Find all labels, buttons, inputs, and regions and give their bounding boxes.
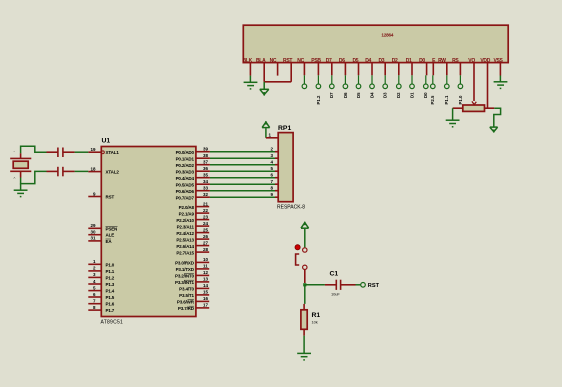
svg-text:U1: U1	[102, 138, 111, 145]
svg-text:12864: 12864	[381, 33, 393, 38]
svg-text:RS: RS	[452, 58, 459, 64]
terminal circles under LCD pins	[302, 75, 463, 88]
wire: LCD pin VDD stub	[487, 63, 489, 109]
svg-text:P3.1/TXD: P3.1/TXD	[176, 267, 195, 272]
terminal D7	[331, 75, 333, 83]
svg-text:P0.0/AD0: P0.0/AD0	[176, 150, 195, 155]
pin stub ALE (pin 30)	[88, 234, 101, 236]
pin stub P1.2 (pin 3)	[88, 276, 101, 278]
svg-text:D3: D3	[379, 58, 385, 64]
overlines PSEN / EA	[106, 226, 118, 239]
svg-text:P1.2: P1.2	[106, 275, 115, 280]
svg-text:18: 18	[90, 166, 96, 171]
rotated terminal labels	[316, 92, 463, 105]
wire P0.0 to RP1 pin 2	[196, 151, 278, 153]
wire: LCD pin PSB stub	[317, 63, 319, 76]
svg-text:P3.4/T0: P3.4/T0	[179, 287, 194, 292]
wire: LCD pin RW stub	[446, 63, 448, 76]
svg-text:21: 21	[203, 201, 209, 206]
capacitor C2 (top)	[47, 148, 75, 158]
wire: LCD pin D7 stub	[331, 63, 333, 76]
svg-text:P1.2: P1.2	[316, 95, 321, 104]
wire R1 to ground	[303, 336, 305, 354]
MCU U1 AT89C51	[101, 138, 196, 326]
terminal NC	[303, 75, 305, 83]
svg-text:VDD: VDD	[480, 58, 490, 64]
wire: LCD pin RST stub	[290, 63, 292, 82]
terminal D3	[384, 75, 386, 83]
pin stub P3.2 (pin 12)	[196, 274, 209, 276]
svg-text:P0.6/AD6: P0.6/AD6	[176, 189, 195, 194]
terminal RW	[446, 75, 448, 83]
MCU left pin names	[106, 150, 120, 313]
wire: LCD pin D6 stub	[344, 63, 346, 76]
svg-text:D2: D2	[396, 92, 401, 98]
wire: LCD pin NC stub	[277, 63, 279, 76]
pin stub P2.5 (pin 26)	[196, 238, 209, 240]
pin stub P1.6 (pin 7)	[88, 303, 101, 305]
svg-text:PSB: PSB	[311, 58, 321, 64]
pin stub P1.1 (pin 2)	[88, 270, 101, 272]
svg-text:D6: D6	[339, 58, 345, 64]
svg-text:P3.0/RXD: P3.0/RXD	[175, 261, 195, 266]
wire P0.2 to RP1 pin 4	[196, 164, 278, 166]
svg-text:RST: RST	[368, 283, 380, 289]
pin stub P2.6 (pin 27)	[196, 245, 209, 247]
svg-text:23: 23	[203, 214, 209, 219]
svg-text:NC: NC	[297, 58, 304, 64]
svg-text:P2.0/A8: P2.0/A8	[179, 205, 195, 210]
wire: LCD pin BLA stub	[263, 63, 265, 82]
svg-text:EA: EA	[106, 239, 113, 244]
wire: LCD pin D3 stub	[384, 63, 386, 76]
svg-text:AT89C51: AT89C51	[101, 320, 124, 326]
pin stub P2.0 (pin 21)	[196, 206, 209, 208]
svg-text:P3.5/T1: P3.5/T1	[179, 293, 194, 298]
svg-text:30: 30	[90, 230, 96, 235]
RP1 pin number 4	[271, 160, 274, 165]
svg-text:RW: RW	[438, 58, 446, 64]
wire: LCD pin D0 stub	[426, 63, 428, 76]
svg-text:19: 19	[90, 147, 96, 152]
wire: LCD pin VO stub	[473, 63, 475, 101]
svg-text:15: 15	[203, 290, 209, 295]
terminal E	[432, 75, 434, 83]
svg-text:25: 25	[203, 227, 209, 232]
svg-text:P2.5/A13: P2.5/A13	[176, 237, 194, 242]
svg-text:D4: D4	[369, 92, 374, 98]
wire: LCD pin D1 stub	[411, 63, 413, 76]
capacitor C1	[325, 271, 356, 297]
pin stub XTAL2 (pin 18)	[88, 171, 101, 173]
pin stub P2.7 (pin 28)	[196, 251, 209, 253]
wire P0.5 to RP1 pin 7	[196, 183, 278, 185]
resistor R1	[301, 304, 321, 336]
svg-text:39: 39	[203, 147, 209, 152]
RP1 pin number 7	[271, 179, 274, 184]
svg-text:NC: NC	[270, 58, 277, 64]
terminal D0	[425, 75, 427, 83]
pin stub XTAL1 (pin 19)	[88, 151, 101, 153]
power (down arrow) under BLA	[260, 82, 269, 96]
svg-text:P0.2/AD2: P0.2/AD2	[176, 163, 195, 168]
MCU right pin stubs P0 done above; P2/P3 stubs	[196, 207, 209, 308]
svg-text:R1: R1	[312, 312, 321, 319]
svg-text:35: 35	[203, 173, 209, 178]
resistor pack RP1	[277, 125, 305, 211]
MCU left pin numbers	[90, 147, 96, 310]
svg-text:P0.1/AD1: P0.1/AD1	[176, 156, 195, 161]
pin stub P1.7 (pin 8)	[88, 309, 101, 311]
svg-text:VSS: VSS	[493, 58, 503, 64]
pin stub P2.3 (pin 24)	[196, 225, 209, 227]
pin XTAL1 clock circle	[102, 151, 105, 154]
pin stub P2.1 (pin 22)	[196, 212, 209, 214]
wire C3 to XTAL2	[75, 170, 89, 172]
svg-text:D0: D0	[423, 92, 428, 98]
pin stub PSEN (pin 29)	[88, 227, 101, 229]
pin stub P3.1 (pin 11)	[196, 268, 209, 270]
svg-text:36: 36	[203, 166, 209, 171]
svg-text:P3.3/INT1: P3.3/INT1	[175, 280, 195, 285]
svg-text:10: 10	[203, 257, 209, 262]
RP1 pin number 8	[271, 186, 274, 191]
wire: LCD pin NC2 stub	[303, 63, 305, 76]
pin stub P1.0 (pin 1)	[88, 263, 101, 265]
terminal D6	[344, 75, 346, 83]
overlines INT0 INT1 WR RD	[184, 274, 194, 307]
RP1 pin number 5	[271, 166, 274, 171]
pin stub P1.3 (pin 4)	[88, 283, 101, 285]
svg-text:P2.7/A15: P2.7/A15	[176, 250, 194, 255]
svg-text:P1.4: P1.4	[106, 289, 115, 294]
svg-text:10k: 10k	[312, 320, 318, 325]
wire: LCD pin BLK stub	[249, 63, 251, 76]
svg-text:10uF: 10uF	[331, 292, 340, 297]
wire junction down to R1	[304, 285, 306, 304]
svg-text:P0.7/AD7: P0.7/AD7	[176, 195, 195, 200]
svg-text:P2.4/A12: P2.4/A12	[176, 231, 194, 236]
terminal RS	[459, 75, 461, 83]
svg-text:D3: D3	[383, 92, 388, 98]
MCU right pin numbers	[203, 147, 209, 308]
RP1 pin number 6	[271, 173, 274, 178]
svg-text:37: 37	[203, 160, 209, 165]
svg-text:P1.7: P1.7	[106, 308, 115, 313]
svg-text:^: ^	[14, 176, 16, 181]
svg-text:C1: C1	[330, 271, 339, 278]
wire: LCD pin D4 stub	[371, 63, 373, 76]
svg-text:PSEN: PSEN	[106, 226, 118, 231]
wire crystal bottom / XTAL2	[21, 171, 47, 183]
svg-text:D7: D7	[329, 92, 334, 98]
LCD pin stubs	[250, 63, 500, 109]
svg-text:34: 34	[203, 179, 209, 184]
wire: LCD pin VSS stub	[499, 63, 501, 76]
svg-text:RP1: RP1	[278, 125, 291, 132]
terminal RST	[356, 283, 380, 290]
svg-text:P1.3: P1.3	[106, 282, 115, 287]
svg-text:D1: D1	[406, 58, 412, 64]
ground below crystal	[14, 184, 28, 197]
wire: LCD pin RS stub	[459, 63, 461, 76]
svg-text:P3.6/WR: P3.6/WR	[177, 300, 195, 305]
power (up arrow) above RP1	[262, 121, 270, 138]
svg-text:31: 31	[90, 236, 96, 241]
RP1 pin 1	[266, 137, 278, 139]
svg-text:XTAL2: XTAL2	[106, 170, 120, 175]
wire C2 to XTAL1	[75, 151, 89, 153]
pin stub P3.5 (pin 15)	[196, 294, 209, 296]
RP1 pin number 9	[271, 192, 274, 197]
svg-text:ALE: ALE	[106, 233, 115, 238]
svg-text:27: 27	[203, 240, 209, 245]
svg-text:38: 38	[203, 153, 209, 158]
svg-text:P1.6: P1.6	[106, 302, 115, 307]
button (push)	[295, 245, 307, 283]
wire pot right to power	[490, 108, 501, 132]
svg-text:P0.5/AD5: P0.5/AD5	[176, 182, 195, 187]
pin stub P3.6 (pin 16)	[196, 300, 209, 302]
pin stub P3.3 (pin 13)	[196, 281, 209, 283]
svg-text:RESPACK-8: RESPACK-8	[277, 205, 305, 211]
svg-text:13: 13	[203, 277, 209, 282]
svg-text:11: 11	[203, 264, 208, 269]
pin stub P1.5 (pin 6)	[88, 296, 101, 298]
svg-text:28: 28	[203, 247, 209, 252]
svg-text:33: 33	[203, 186, 209, 191]
pin stub P3.7 (pin 17)	[196, 307, 209, 309]
svg-text:P1.0: P1.0	[106, 262, 115, 267]
svg-text:P2.5: P2.5	[430, 95, 435, 104]
svg-text:16: 16	[203, 296, 209, 301]
MCU right pin names	[175, 150, 195, 311]
svg-text:XTAL1: XTAL1	[106, 150, 120, 155]
svg-text:26: 26	[203, 234, 209, 239]
wire: LCD pin E stub	[432, 63, 434, 76]
svg-text:17: 17	[203, 303, 209, 308]
svg-text:D6: D6	[343, 92, 348, 98]
svg-text:22: 22	[203, 208, 209, 213]
svg-text:P0.3/AD3: P0.3/AD3	[176, 169, 195, 174]
wire P0.1 to RP1 pin 3	[196, 157, 278, 159]
ground left of pot	[446, 108, 460, 127]
svg-text:P3.2/INT0: P3.2/INT0	[175, 274, 195, 279]
pin stub P2.4 (pin 25)	[196, 232, 209, 234]
svg-text:P2.1/A9: P2.1/A9	[179, 211, 195, 216]
pin stub P2.2 (pin 23)	[196, 219, 209, 221]
wire: LCD pin D5 stub	[358, 63, 360, 76]
pin stub EA (pin 31)	[88, 240, 101, 242]
terminal D1	[411, 75, 413, 83]
wire junction right to C1	[305, 284, 325, 286]
wire P0.6 to RP1 pin 8	[196, 190, 278, 192]
svg-text:P1.0: P1.0	[458, 95, 463, 104]
power (up arrow) above button	[301, 222, 309, 248]
MCU left pin stubs	[88, 152, 101, 310]
svg-text:D2: D2	[392, 58, 398, 64]
ground below R1	[297, 353, 311, 360]
svg-text:12: 12	[203, 270, 209, 275]
pin stub P3.4 (pin 14)	[196, 287, 209, 289]
svg-text:P3.7/RD: P3.7/RD	[178, 306, 195, 311]
svg-text:P1.5: P1.5	[106, 295, 115, 300]
svg-text:24: 24	[203, 221, 209, 226]
LCD LCD1 12864	[243, 25, 509, 64]
terminal D4	[371, 75, 373, 83]
svg-text:29: 29	[90, 223, 96, 228]
svg-text:D0: D0	[419, 58, 425, 64]
RP1 pin number 3	[271, 153, 274, 158]
junction node	[303, 283, 306, 286]
pin stub RST (pin 9)	[88, 196, 101, 198]
pin stub P1.4 (pin 5)	[88, 290, 101, 292]
wire P0.4 to RP1 pin 6	[196, 177, 278, 179]
svg-text:RST: RST	[106, 195, 115, 200]
svg-text:P2.6/A14: P2.6/A14	[176, 244, 194, 249]
svg-text:P2.2/A10: P2.2/A10	[176, 218, 194, 223]
terminal D5	[358, 75, 360, 83]
wire P0.3 to RP1 pin 5	[196, 170, 278, 172]
svg-text:32: 32	[203, 192, 209, 197]
ground under VSS	[494, 76, 508, 89]
svg-text:14: 14	[203, 283, 209, 288]
svg-text:P0.4/AD4: P0.4/AD4	[176, 176, 195, 181]
RP1 pin number 2	[271, 147, 274, 152]
wire crystal top to XTAL1	[21, 146, 47, 153]
svg-text:D4: D4	[365, 58, 371, 64]
svg-text:D5: D5	[356, 92, 361, 98]
svg-text:P1.1: P1.1	[106, 269, 115, 274]
crystal X1	[10, 149, 31, 181]
terminal PSB	[317, 75, 319, 83]
svg-text:D1: D1	[409, 92, 414, 98]
ground under BLK	[244, 76, 258, 89]
wire: LCD pin D2 stub	[398, 63, 400, 76]
svg-text:P1.1: P1.1	[444, 95, 449, 104]
pot RV (contrast)	[453, 101, 495, 111]
pin stub P3.0 (pin 10)	[196, 261, 209, 263]
svg-text:P2.3/A11: P2.3/A11	[177, 224, 195, 229]
terminal D2	[398, 75, 400, 83]
capacitor C3 (bottom)	[47, 167, 75, 177]
wire P0.7 to RP1 pin 9	[196, 196, 278, 198]
wire BLA-RST tie	[264, 81, 291, 83]
